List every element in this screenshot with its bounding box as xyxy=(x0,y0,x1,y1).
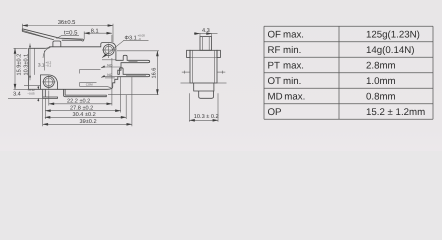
dim 3.1 hole small xyxy=(35,49,52,75)
svg-text:min.: min. xyxy=(283,76,301,87)
dim 36±0.5 top xyxy=(22,19,113,43)
bottom block A xyxy=(194,83,214,91)
svg-text:‒0.05: ‒0.05 xyxy=(27,91,35,95)
dim 10.3±0.2 end view xyxy=(189,93,218,122)
svg-text:36±0.5: 36±0.5 xyxy=(58,19,76,26)
dim 10.3±0.1 rotated xyxy=(23,44,31,81)
side center marks lower xyxy=(181,82,227,84)
dim 4.3 xyxy=(194,28,218,37)
tab NC slot xyxy=(126,75,146,77)
svg-text:125g(1.23N): 125g(1.23N) xyxy=(366,29,420,40)
NC leader arrow xyxy=(101,76,117,79)
svg-text:OP: OP xyxy=(268,107,282,118)
extension lines bottom chain xyxy=(8,97,43,99)
internal side lines xyxy=(192,50,194,83)
svg-text:RF: RF xyxy=(268,45,281,56)
lever middle line xyxy=(23,30,53,39)
svg-text:16.6: 16.6 xyxy=(152,68,158,79)
svg-text:0.8mm: 0.8mm xyxy=(366,91,396,102)
svg-text:max.: max. xyxy=(283,29,304,40)
dim 39±0.2 xyxy=(43,119,132,125)
seam vertical xyxy=(79,82,81,86)
side center marks upper xyxy=(182,71,226,74)
lever end curl xyxy=(82,39,84,41)
end view body xyxy=(190,50,217,83)
mounting hole bottom-left xyxy=(42,76,55,91)
case inner recess curve top-left xyxy=(43,48,50,58)
mounting hole top-right xyxy=(102,44,115,58)
svg-text:15.2 ± 1.2mm: 15.2 ± 1.2mm xyxy=(366,107,425,118)
dim t=0.5 label xyxy=(57,29,80,38)
svg-text:27.8 ±0.2: 27.8 ±0.2 xyxy=(70,105,93,111)
bottom block B xyxy=(199,91,214,98)
svg-text:OT: OT xyxy=(268,76,282,87)
inner seam right step xyxy=(105,77,115,79)
svg-text:8.1: 8.1 xyxy=(91,28,99,34)
svg-text:14g(0.14N): 14g(0.14N) xyxy=(366,45,414,56)
svg-text:4.3: 4.3 xyxy=(202,28,210,34)
svg-text:max.: max. xyxy=(284,91,305,102)
NO leader arrow xyxy=(101,66,121,69)
hole boss bottom-left xyxy=(41,75,58,89)
left ear xyxy=(187,50,190,57)
right ear xyxy=(217,50,220,57)
bottom ledge line 3.4 xyxy=(24,85,41,87)
dim 22.2±0.2 xyxy=(49,99,112,105)
dim Φ3.1 +0.05/0 label with leader xyxy=(102,34,148,58)
lever bottom right segment xyxy=(62,39,82,41)
svg-text:1.0mm: 1.0mm xyxy=(366,76,396,87)
svg-text:PT: PT xyxy=(268,60,280,71)
plunger xyxy=(200,37,212,51)
svg-text:10.3 ± 0.2: 10.3 ± 0.2 xyxy=(194,114,219,120)
inner seam L line xyxy=(80,70,101,74)
dim 15.9±0.2 rotated xyxy=(14,48,58,89)
boss1 base line xyxy=(102,59,116,61)
bottom terminal leg xyxy=(43,89,58,98)
table grid xyxy=(264,26,433,119)
lever lower line xyxy=(22,31,54,39)
seam line above COM xyxy=(80,81,97,83)
dim 16.6 rotated xyxy=(117,51,159,95)
case bottom extension for 16.6 xyxy=(108,94,159,96)
tab NO slot xyxy=(129,60,138,62)
lever upper line xyxy=(22,29,83,39)
svg-text:min.: min. xyxy=(283,45,301,56)
plunger bump under lever xyxy=(53,41,61,47)
dim 30.4±0.2 xyxy=(45,112,126,118)
svg-text:30.4 ±0.2: 30.4 ±0.2 xyxy=(73,112,96,118)
svg-text:max.: max. xyxy=(283,60,304,71)
case left edge xyxy=(29,48,41,89)
svg-text:COM: COM xyxy=(86,83,93,87)
svg-text:3.1: 3.1 xyxy=(38,62,45,67)
lever tip xyxy=(21,29,23,32)
dim 8.1 xyxy=(84,28,112,42)
seam line below COM xyxy=(80,86,112,89)
svg-text:39±0.2: 39±0.2 xyxy=(80,119,97,125)
internal line upper xyxy=(190,57,217,59)
dim 3.4 bottom left xyxy=(13,86,39,102)
svg-text:15.9±0.2: 15.9±0.2 xyxy=(17,54,23,76)
svg-text:3.4: 3.4 xyxy=(13,91,21,97)
svg-text:22.2 ±0.2: 22.2 ±0.2 xyxy=(67,99,90,105)
svg-text:MD: MD xyxy=(268,91,283,102)
case top and right profile xyxy=(29,43,150,90)
svg-text:2.8mm: 2.8mm xyxy=(366,60,396,71)
svg-text:‒0.1: ‒0.1 xyxy=(46,63,52,67)
dim 27.8±0.2 xyxy=(45,105,120,111)
COM terminal hook xyxy=(64,89,107,96)
svg-text:10.3±0.1: 10.3±0.1 xyxy=(23,54,29,76)
svg-text:OF: OF xyxy=(268,29,282,40)
